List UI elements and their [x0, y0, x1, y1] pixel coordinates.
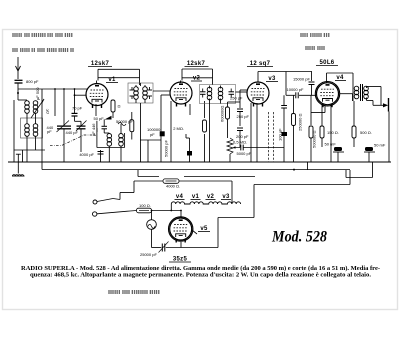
svg-text:50000 pF: 50000 pF	[116, 119, 133, 124]
svg-text:15000 pF: 15000 pF	[293, 76, 310, 81]
svg-text:2 MΩ.: 2 MΩ.	[173, 126, 184, 131]
svg-text:pF: pF	[47, 129, 52, 134]
svg-text:5000 pF: 5000 pF	[237, 151, 252, 156]
svg-text:50 mF: 50 mF	[325, 142, 337, 147]
svg-text:250000 Ω: 250000 Ω	[298, 114, 303, 131]
svg-text:0,5 MΩ.: 0,5 MΩ.	[233, 140, 247, 145]
svg-text:‖‖‖‖‖ ‖‖‖ ‖‖‖‖‖‖‖ ‖‖‖ ‖‖‖‖ ‖‖‖: ‖‖‖‖‖ ‖‖‖ ‖‖‖‖‖‖‖ ‖‖‖ ‖‖‖‖ ‖‖‖‖	[12, 33, 73, 39]
svg-text:70 pF: 70 pF	[72, 106, 83, 111]
svg-text:250 pF: 250 pF	[237, 114, 250, 119]
svg-text:pF: pF	[44, 108, 50, 115]
svg-text:250 pF: 250 pF	[230, 96, 243, 101]
svg-text:‖‖‖‖‖ ‖‖‖‖: ‖‖‖‖‖ ‖‖‖‖	[305, 46, 325, 52]
svg-text:50 mF: 50 mF	[374, 143, 386, 148]
svg-text:µF 500: µF 500	[35, 87, 40, 100]
svg-text:100 µF: 100 µF	[278, 128, 283, 141]
svg-text:500 Ω.: 500 Ω.	[360, 130, 372, 135]
svg-text:4000 Ω.: 4000 Ω.	[166, 184, 180, 189]
svg-text:200 pF: 200 pF	[236, 134, 249, 139]
svg-text:800 pF: 800 pF	[26, 79, 39, 84]
svg-text:500000 Ω: 500000 Ω	[312, 131, 317, 148]
svg-text:RADIO SUPERLA - Mod. 528 - Ad: RADIO SUPERLA - Mod. 528 - Ad alimentazi…	[21, 265, 380, 272]
svg-text:50000 pF: 50000 pF	[164, 140, 169, 157]
svg-text:Mod. 528: Mod. 528	[271, 229, 327, 246]
svg-text:150 Ω.: 150 Ω.	[327, 130, 339, 135]
svg-text:quenza: 468,5 kc. Altoparlante: quenza: 468,5 kc. Altoparlante a magnete…	[30, 273, 372, 279]
svg-text:100 Ω.: 100 Ω.	[139, 203, 151, 208]
svg-text:50 pF: 50 pF	[94, 116, 105, 121]
svg-text:4000 pF: 4000 pF	[79, 152, 94, 157]
svg-text:10000 pF: 10000 pF	[287, 87, 304, 92]
svg-text:Ω: Ω	[118, 104, 121, 109]
svg-text:440 pF: 440 pF	[66, 130, 79, 135]
svg-text:pF: pF	[150, 132, 155, 137]
svg-text:600000Ω: 600000Ω	[220, 106, 225, 122]
svg-text:‖‖‖‖ ‖‖‖‖‖‖ ‖‖‖: ‖‖‖‖ ‖‖‖‖‖‖ ‖‖‖	[300, 33, 330, 39]
svg-text:‖‖‖ ‖‖‖‖‖ ‖‖ ‖‖‖‖ ‖‖‖‖‖ ‖‖‖‖‖: ‖‖‖ ‖‖‖‖‖ ‖‖ ‖‖‖‖ ‖‖‖‖‖ ‖‖‖‖‖ ‖‖	[12, 48, 74, 54]
svg-text:‖‖‖‖‖‖ ‖‖‖‖ ‖‖‖‖‖‖‖‖ ‖‖‖‖‖: ‖‖‖‖‖‖ ‖‖‖‖ ‖‖‖‖‖‖‖‖ ‖‖‖‖‖	[108, 290, 160, 296]
svg-text:25000 pF: 25000 pF	[140, 252, 157, 257]
svg-text:µF 446: µF 446	[91, 123, 96, 136]
